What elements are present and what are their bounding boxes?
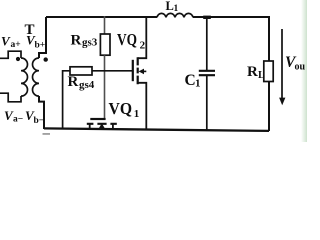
transistor VQ2 body lead [141,70,146,72]
transformer polarity dot (primary) [16,57,20,61]
capacitor C1 bottom lead [206,76,208,130]
inductor L1 [157,13,193,17]
transistor VQ1 channel (dashed) [87,123,117,125]
svg-text:1: 1 [195,78,201,90]
transistor VQ2 source lead [138,83,147,130]
node Va+ terminal wire from left edge [0,51,21,58]
junction C1/top rail [203,16,211,19]
svg-text:b+: b+ [35,41,46,51]
Vout arrowhead [279,98,285,106]
svg-text:a+: a+ [11,40,21,50]
svg-text:2: 2 [140,40,146,52]
transformer polarity dot (secondary) [44,57,48,61]
scan speck under rail [43,133,51,135]
svg-text:ou: ou [295,62,306,73]
svg-text:R: R [71,33,82,49]
svg-text:gs3: gs3 [82,37,98,49]
wire top rail left segment [46,16,157,18]
transistor VQ1 drain stub [89,124,91,129]
svg-text:L: L [258,70,265,81]
transistor VQ1 source stub [112,124,114,130]
wire bottom rail [44,128,269,131]
transistor VQ2 gate bar [132,60,134,81]
wire gate bus (Rgs3 bottom to VQ1 gate) [104,55,106,119]
scan edge artifact (right green strip) [301,0,307,142]
svg-text:R: R [68,74,79,90]
wire right rail lower [268,82,270,132]
wire right rail upper [268,16,270,61]
capacitor C1 top lead [206,16,208,70]
svg-text:VQ: VQ [109,99,133,118]
transistor VQ2 body arrow [139,69,144,75]
svg-text:gs4: gs4 [79,79,95,91]
transistor VQ1 body stub [101,127,103,129]
node Va- terminal wire from left edge [0,93,21,102]
svg-text:a−: a− [13,115,23,125]
wire secondary top (to top rail corner) [39,17,46,58]
transformer T primary winding (left) [21,58,28,96]
wire secondary bottom (to bottom rail) [39,96,44,129]
transformer T secondary winding (right) [33,58,40,96]
transistor VQ2 drain lead [138,16,147,58]
svg-text:b−: b− [34,116,45,126]
resistor Rgs4 body [70,67,92,75]
svg-text:VQ: VQ [117,30,137,49]
Vout indicator arrow line [281,29,283,99]
svg-text:1: 1 [174,4,179,14]
svg-text:V: V [1,34,11,49]
transistor VQ1 body arrow [99,123,105,128]
resistor Rgs3 body [100,34,110,55]
wire top rail right segment [193,16,269,18]
resistor Rgs4 left lead down to bottom rail [63,71,70,129]
resistor RL body [264,61,273,82]
wire Rgs4 to VQ2 gate [92,70,132,72]
svg-text:R: R [247,64,258,80]
transistor VQ1 gate bar [90,118,105,120]
transistor VQ2 channel (dashed) [137,57,139,84]
svg-text:1: 1 [134,108,140,120]
capacitor C1 plates [199,71,215,75]
resistor Rgs3 top lead [104,16,106,34]
